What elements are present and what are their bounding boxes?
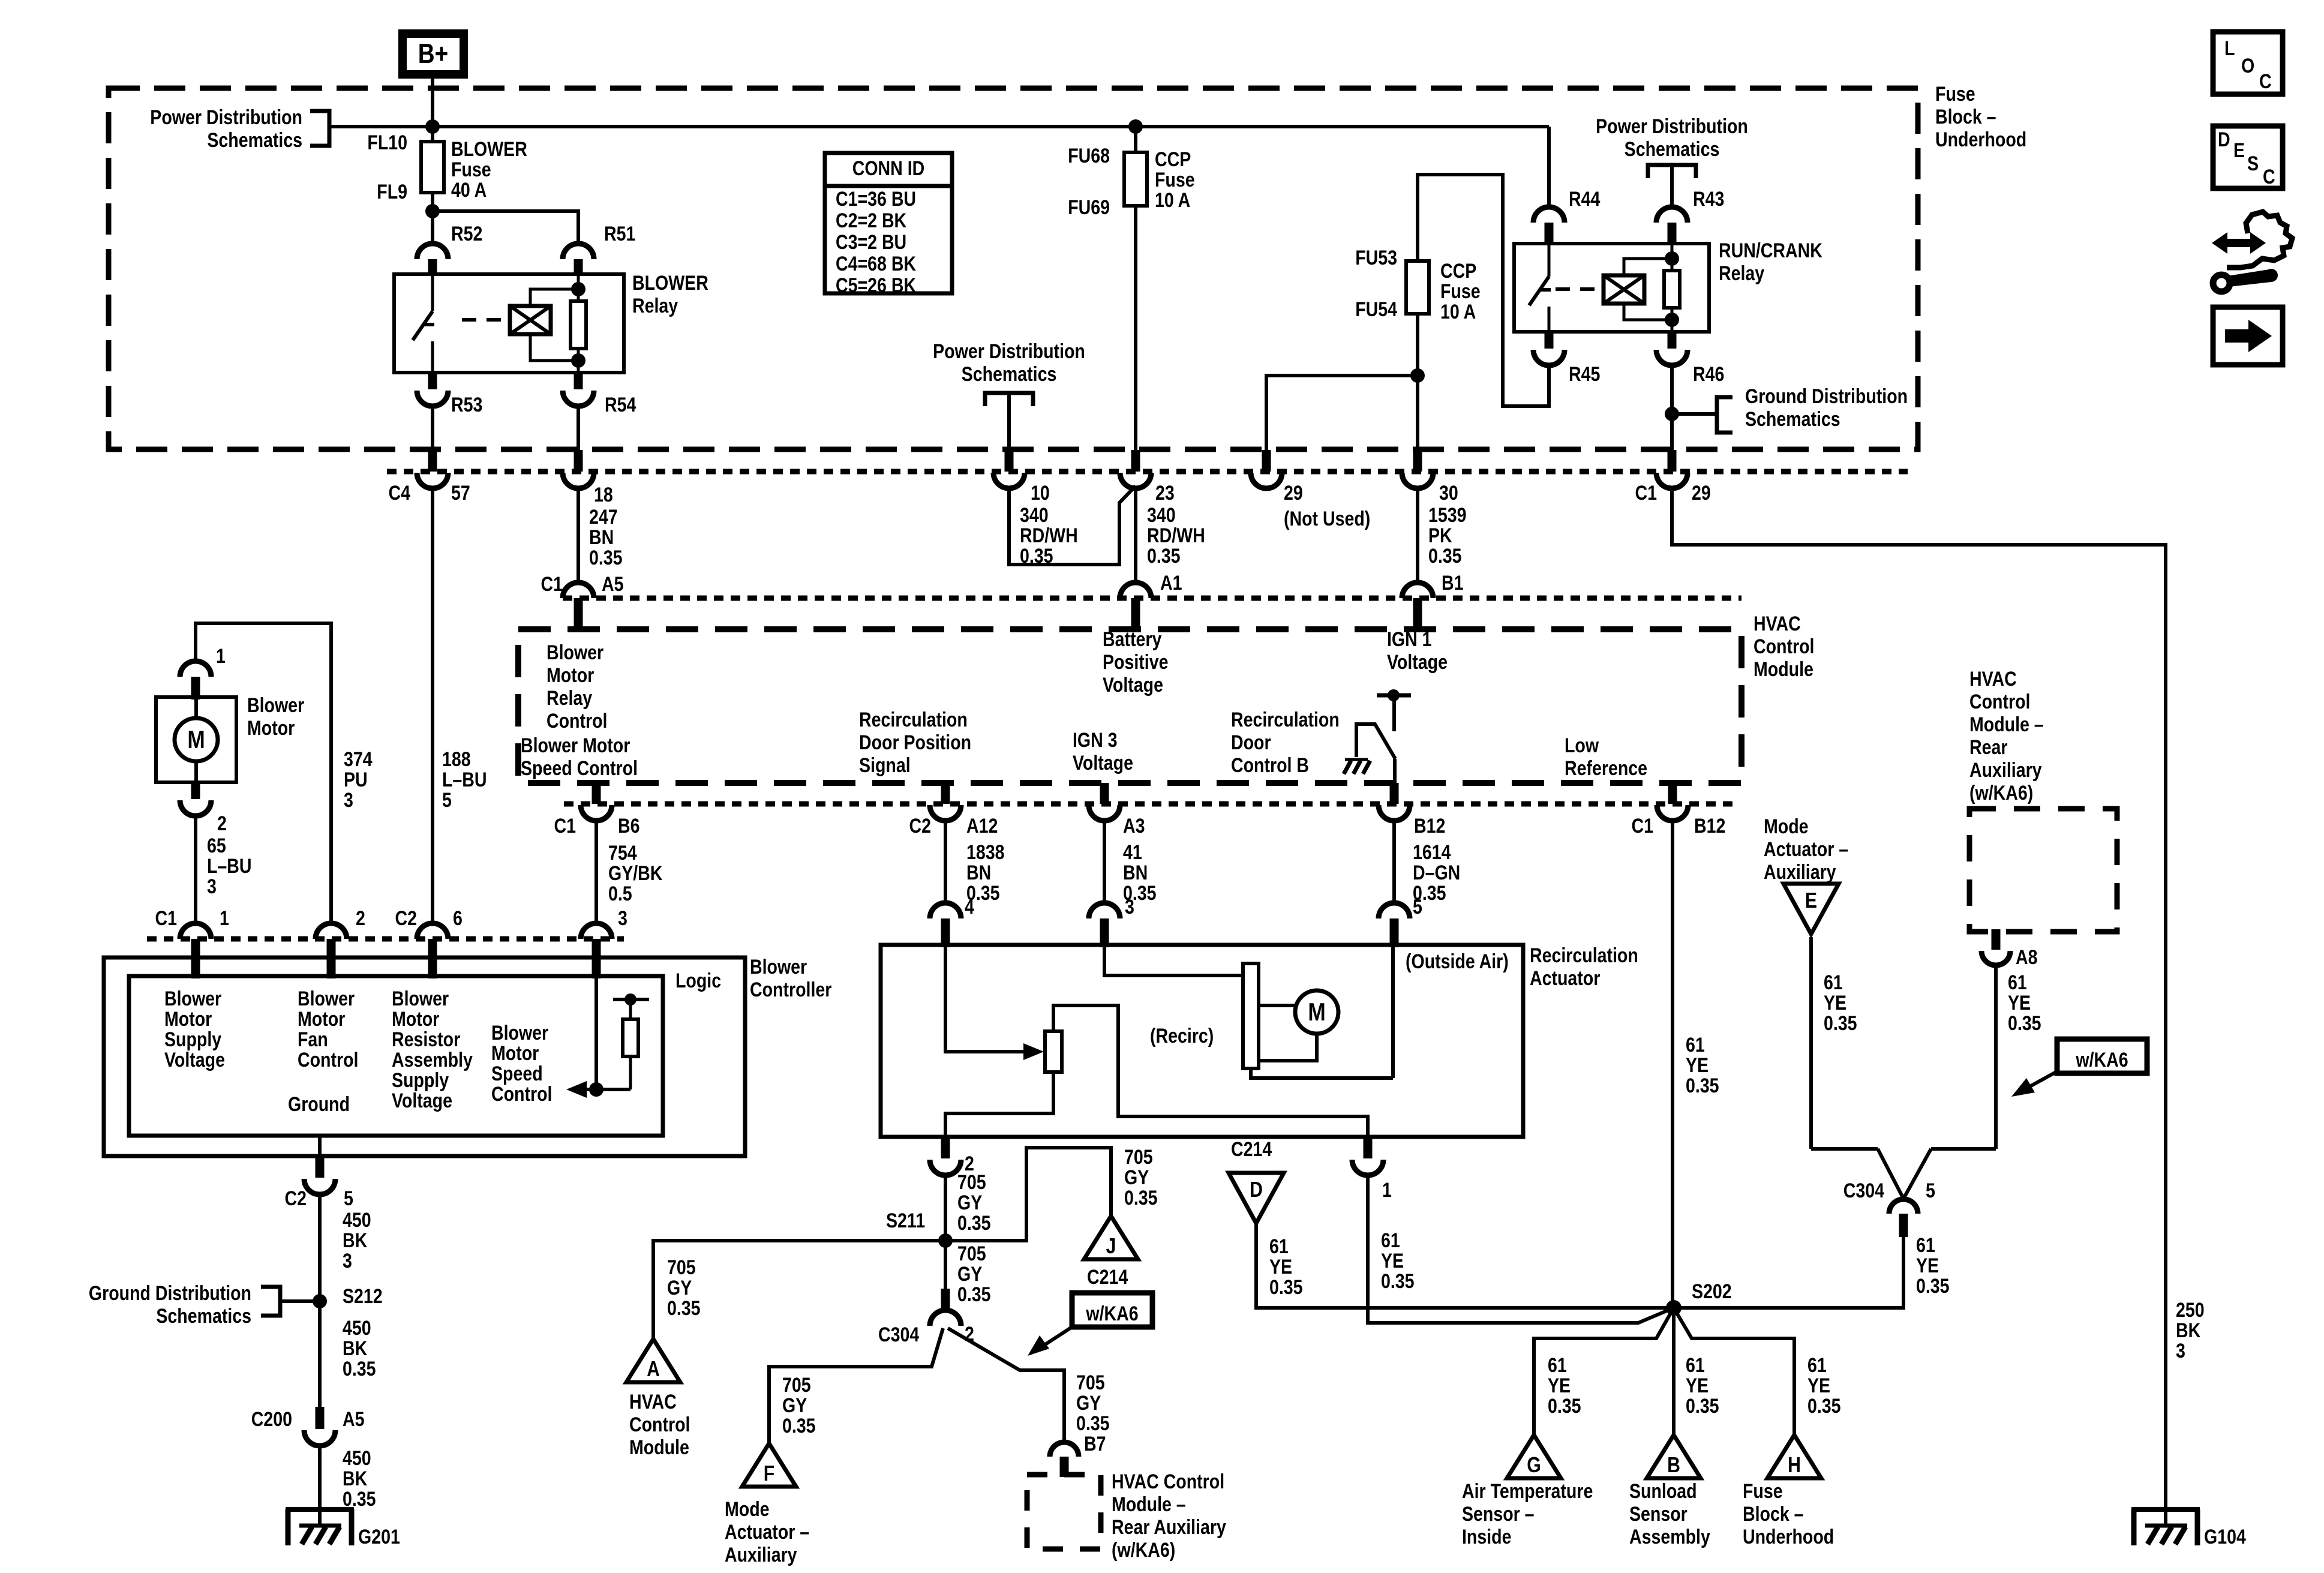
switch blower relay contact	[413, 274, 434, 373]
svg-text:705: 705	[782, 1374, 811, 1397]
svg-text:29: 29	[1692, 482, 1711, 505]
svg-text:Control: Control	[1969, 691, 2030, 713]
label outside air	[1406, 950, 1509, 973]
wire pin2 to C304-2	[944, 1175, 947, 1289]
svg-text:10 A: 10 A	[1440, 301, 1476, 323]
label wire 61 YE low reference	[1686, 1034, 1719, 1097]
svg-text:BK: BK	[343, 1229, 368, 1252]
node bus to FU68	[1128, 119, 1143, 134]
svg-text:705: 705	[1076, 1371, 1105, 1394]
svg-text:0.35: 0.35	[957, 1283, 991, 1306]
splice S212	[313, 1294, 327, 1308]
connector row HVAC module outputs dotted line	[564, 801, 1740, 807]
svg-text:23: 23	[1155, 482, 1175, 505]
svg-text:450: 450	[343, 1317, 371, 1340]
label battery positive voltage	[1103, 628, 1168, 697]
fuse FU68/FU69 CCP 10A	[1124, 152, 1147, 206]
svg-text:Fuse: Fuse	[1155, 169, 1195, 191]
label wire 1539 PK	[1428, 504, 1467, 568]
svg-text:Fuse: Fuse	[451, 158, 491, 181]
svg-text:C2: C2	[285, 1187, 307, 1210]
splice S202	[1666, 1300, 1682, 1316]
wire E leg horizontal	[1811, 1147, 1878, 1151]
label wire 450 BK 0.35 lower	[343, 1447, 376, 1511]
connector C4 pin 57	[417, 450, 448, 488]
svg-text:(Outside Air): (Outside Air)	[1406, 950, 1509, 973]
svg-text:250: 250	[2176, 1299, 2205, 1322]
svg-text:S202: S202	[1692, 1280, 1732, 1303]
svg-text:R44: R44	[1569, 188, 1601, 211]
label blower controller	[750, 956, 831, 1001]
svg-text:O: O	[2241, 55, 2254, 77]
wire bus to FU68	[1134, 127, 1137, 152]
label C214 J	[1087, 1266, 1128, 1289]
svg-text:RUN/CRANK: RUN/CRANK	[1719, 239, 1822, 262]
svg-text:F: F	[764, 1462, 774, 1486]
svg-text:61: 61	[1807, 1354, 1827, 1377]
connector C304 pin 2	[930, 1289, 961, 1326]
svg-text:G: G	[1527, 1454, 1541, 1478]
svg-text:Module –: Module –	[1969, 713, 2044, 736]
connector actuator pin 4	[930, 903, 961, 947]
svg-text:Controller: Controller	[750, 978, 831, 1001]
svg-text:FU53: FU53	[1355, 247, 1397, 269]
svg-text:Voltage: Voltage	[1103, 674, 1163, 697]
label HVAC control module A	[629, 1391, 690, 1459]
wire 57 to blower controller pin 6	[431, 488, 434, 923]
wire B6 to controller	[594, 821, 598, 923]
svg-text:Air Temperature: Air Temperature	[1462, 1480, 1593, 1503]
svg-text:Supply: Supply	[392, 1069, 449, 1092]
svg-text:Schematics: Schematics	[156, 1305, 251, 1328]
svg-text:Positive: Positive	[1103, 651, 1168, 674]
svg-text:Recirculation: Recirculation	[859, 709, 968, 731]
svg-text:3: 3	[618, 907, 627, 930]
svg-text:YE: YE	[1269, 1256, 1292, 1278]
svg-text:Fuse: Fuse	[1743, 1480, 1783, 1503]
svg-text:450: 450	[343, 1447, 371, 1470]
svg-text:Resistor: Resistor	[392, 1028, 460, 1051]
svg-text:0.35: 0.35	[957, 1212, 991, 1235]
connector C2 pin 5 ground	[304, 1156, 335, 1194]
svg-text:40 A: 40 A	[451, 179, 487, 202]
connector R44	[1533, 207, 1565, 245]
svg-text:HVAC Control: HVAC Control	[1112, 1470, 1224, 1493]
svg-text:Recirculation: Recirculation	[1231, 709, 1340, 731]
svg-text:G201: G201	[358, 1526, 400, 1548]
svg-text:Ground Distribution: Ground Distribution	[1745, 385, 1908, 408]
svg-text:C4: C4	[389, 482, 411, 505]
svg-text:1539: 1539	[1428, 504, 1467, 527]
label mode actuator auxiliary E	[1764, 815, 1848, 884]
svg-text:C214: C214	[1231, 1138, 1272, 1161]
label wire 61 YE from pin 1	[1381, 1229, 1415, 1293]
label S211	[886, 1209, 925, 1232]
svg-text:Module: Module	[629, 1436, 689, 1459]
svg-text:D: D	[1250, 1178, 1263, 1202]
svg-text:YE: YE	[1824, 992, 1846, 1014]
svg-text:Blower: Blower	[164, 987, 221, 1010]
wire ground internal	[318, 1136, 322, 1156]
svg-text:Power Distribution: Power Distribution	[1596, 115, 1748, 138]
svg-text:C1: C1	[155, 907, 177, 930]
relay RUN/CRANK Relay box	[1514, 244, 1709, 332]
label recirculation door position signal	[859, 709, 971, 777]
svg-text:Blower: Blower	[298, 987, 355, 1010]
svg-text:L–BU: L–BU	[207, 855, 252, 878]
label wire 340 RD/WH left	[1020, 504, 1078, 568]
label IGN 1 voltage	[1387, 628, 1448, 674]
svg-text:HVAC: HVAC	[1753, 613, 1801, 635]
svg-text:Underhood: Underhood	[1743, 1526, 1834, 1548]
label ground	[288, 1093, 350, 1116]
svg-text:61: 61	[2008, 971, 2027, 994]
label wire 188 L-BU	[442, 748, 487, 812]
connector R45	[1533, 332, 1565, 365]
svg-text:Relay: Relay	[547, 687, 593, 710]
svg-text:0.35: 0.35	[1686, 1074, 1719, 1097]
svg-text:0.35: 0.35	[2008, 1012, 2041, 1035]
svg-text:CCP: CCP	[1155, 148, 1191, 171]
svg-text:30: 30	[1439, 482, 1458, 505]
label HVAC rear auxiliary left	[1112, 1470, 1226, 1562]
svg-text:Schematics: Schematics	[207, 129, 302, 152]
svg-text:5: 5	[344, 1187, 353, 1210]
icon service procedure wrench arrow	[2212, 212, 2292, 292]
wire R54 to 18	[577, 406, 580, 450]
ground G201	[286, 1509, 400, 1548]
svg-text:C: C	[2263, 166, 2275, 188]
label power distribution schematics middle	[933, 340, 1085, 386]
svg-text:0.35: 0.35	[1269, 1276, 1303, 1299]
svg-text:Actuator –: Actuator –	[725, 1521, 809, 1544]
label wire 1614 D-GN	[1413, 841, 1460, 905]
svg-text:247: 247	[589, 506, 618, 529]
svg-text:GY: GY	[957, 1263, 982, 1286]
label low reference	[1565, 734, 1647, 780]
wire C304-5 right leg	[1903, 1149, 1931, 1199]
switch run/crank relay contact	[1529, 244, 1551, 332]
connector pin 23	[1120, 450, 1151, 488]
svg-text:B6: B6	[618, 815, 639, 837]
label RUN/CRANK Relay	[1719, 239, 1822, 285]
pin B7 label	[1084, 1433, 1106, 1455]
connector R51	[563, 244, 594, 275]
triangle F mode actuator	[742, 1443, 796, 1487]
wire C1-29 to G104	[1672, 488, 2166, 1509]
svg-text:Mode: Mode	[725, 1498, 770, 1521]
wire pin 3 to drive bar	[1104, 945, 1243, 975]
svg-text:Motor: Motor	[491, 1042, 539, 1065]
svg-text:A12: A12	[966, 815, 998, 837]
blower controller logic box	[129, 976, 663, 1136]
svg-text:L: L	[2224, 37, 2235, 60]
svg-text:C1: C1	[554, 815, 576, 837]
svg-text:GY/BK: GY/BK	[608, 862, 663, 885]
connector C1 pin 29	[1656, 450, 1688, 488]
svg-text:Door: Door	[1231, 731, 1271, 754]
label IGN 3 voltage	[1073, 729, 1133, 775]
wire C304-5 left leg	[1878, 1149, 1903, 1199]
label not used	[1284, 508, 1370, 530]
svg-text:Schematics: Schematics	[1625, 138, 1720, 161]
connector A8	[1981, 929, 2010, 965]
svg-text:3: 3	[344, 789, 353, 812]
svg-text:IGN 3: IGN 3	[1073, 729, 1118, 752]
svg-text:B1: B1	[1442, 572, 1463, 595]
svg-text:C1: C1	[1635, 482, 1657, 505]
svg-text:FU54: FU54	[1355, 298, 1397, 321]
wire S211 to J	[945, 1148, 1111, 1241]
wire E down	[1809, 937, 1813, 1149]
fuse FL10/FL9 BLOWER 40A	[421, 142, 444, 193]
svg-text:Control: Control	[298, 1049, 358, 1071]
svg-text:FL10: FL10	[367, 131, 407, 154]
connector pin A1	[1120, 583, 1151, 629]
label wire 1838 BN	[966, 841, 1005, 905]
svg-text:5: 5	[1413, 896, 1422, 918]
fuse FU53/FU54 CCP 10A	[1406, 261, 1429, 314]
icon LOC	[2213, 32, 2283, 94]
svg-text:374: 374	[344, 748, 373, 771]
svg-text:C304: C304	[878, 1323, 920, 1346]
svg-text:Motor: Motor	[298, 1008, 345, 1031]
wire motor to controller pin 1	[194, 816, 197, 923]
svg-text:0.35: 0.35	[589, 547, 623, 569]
wire C304-2 to F	[769, 1328, 943, 1443]
svg-text:Auxiliary: Auxiliary	[725, 1544, 797, 1566]
svg-text:Sensor: Sensor	[1629, 1503, 1688, 1526]
svg-text:Low: Low	[1565, 734, 1599, 757]
connector pin 10	[993, 450, 1025, 488]
svg-text:R53: R53	[451, 394, 482, 416]
svg-text:61: 61	[1824, 971, 1843, 994]
wire pin1 to S202	[1368, 1175, 1674, 1323]
svg-text:Rear Auxiliary: Rear Auxiliary	[1112, 1516, 1226, 1539]
svg-text:0.35: 0.35	[343, 1358, 376, 1380]
svg-text:A1: A1	[1160, 572, 1182, 595]
label recirculation door control B	[1231, 709, 1340, 777]
svg-text:C1=36 BU: C1=36 BU	[836, 188, 916, 211]
connector actuator pin 5	[1379, 903, 1410, 947]
label HVAC control module	[1753, 613, 1814, 681]
svg-text:Relay: Relay	[632, 295, 678, 317]
svg-text:D–GN: D–GN	[1413, 861, 1460, 884]
svg-text:1614: 1614	[1413, 841, 1451, 864]
motor M recirculation	[1295, 990, 1338, 1034]
connector row fuse block outputs dotted line	[387, 469, 1908, 475]
svg-text:0.35: 0.35	[1381, 1270, 1415, 1293]
bracket power distribution left	[310, 111, 329, 146]
svg-text:Fan: Fan	[298, 1028, 328, 1051]
svg-text:Motor: Motor	[164, 1008, 212, 1031]
svg-text:0.35: 0.35	[1076, 1412, 1110, 1435]
wire low reference to S202	[1671, 821, 1674, 1308]
wire pot bottom to pin 2	[945, 1072, 1053, 1137]
svg-text:BK: BK	[343, 1467, 368, 1490]
svg-text:188: 188	[442, 748, 471, 771]
svg-text:BLOWER: BLOWER	[451, 138, 527, 161]
svg-text:3: 3	[343, 1250, 352, 1272]
svg-text:705: 705	[957, 1242, 986, 1265]
svg-text:RD/WH: RD/WH	[1147, 524, 1205, 547]
svg-text:Module: Module	[1753, 658, 1813, 681]
svg-text:Motor: Motor	[392, 1008, 439, 1031]
connector pin 30	[1402, 450, 1433, 488]
HVAC rear auxiliary dashed box left	[1027, 1475, 1101, 1549]
bracket ground distribution right	[1717, 397, 1733, 433]
coil blower relay	[462, 274, 586, 373]
svg-text:S211: S211	[886, 1209, 925, 1232]
wire PDS to R43	[1670, 165, 1674, 207]
node B+ bus junction	[425, 119, 440, 134]
connector R43	[1656, 207, 1688, 245]
label wire 705 GY to A	[667, 1256, 701, 1320]
svg-text:Signal: Signal	[859, 754, 911, 777]
label wire 374 PU	[344, 748, 373, 812]
connector pin A3	[1089, 783, 1120, 821]
svg-text:A: A	[647, 1358, 660, 1382]
connector C1 pin B12 low reference	[1657, 783, 1688, 821]
svg-text:BK: BK	[2176, 1319, 2201, 1342]
label wire 247 BN	[589, 506, 623, 569]
wire 18 to A5	[577, 488, 580, 583]
label wire 61 YE to C304-5	[1916, 1234, 1950, 1298]
label fuse block underhood H	[1743, 1480, 1834, 1548]
svg-text:Supply: Supply	[164, 1028, 222, 1051]
svg-text:YE: YE	[1686, 1054, 1709, 1077]
svg-text:A5: A5	[343, 1408, 364, 1431]
svg-text:R45: R45	[1569, 363, 1600, 386]
label recirc	[1150, 1025, 1214, 1047]
wire B12 to actuator pin 5	[1392, 821, 1396, 903]
svg-text:YE: YE	[1381, 1250, 1404, 1272]
HVAC control module dashed box	[518, 629, 1742, 783]
label air temperature sensor	[1462, 1480, 1593, 1548]
svg-text:Speed: Speed	[491, 1062, 543, 1085]
svg-text:GY: GY	[1076, 1392, 1101, 1415]
svg-text:A3: A3	[1123, 815, 1145, 837]
svg-text:H: H	[1788, 1454, 1801, 1478]
wire bracket to S212	[280, 1299, 313, 1303]
svg-text:0.35: 0.35	[667, 1297, 701, 1320]
svg-text:61: 61	[1269, 1235, 1289, 1258]
svg-text:A8: A8	[2016, 946, 2037, 969]
node FU54 junction	[1410, 368, 1425, 383]
svg-text:Relay: Relay	[1719, 262, 1765, 285]
label wire 41 BN	[1123, 841, 1157, 905]
relay BLOWER Relay box	[394, 274, 624, 373]
wire branch to R51	[433, 211, 578, 244]
svg-text:3: 3	[2176, 1340, 2185, 1362]
w/KA6 flag box left	[1028, 1293, 1152, 1356]
svg-text:0.35: 0.35	[1548, 1395, 1581, 1418]
svg-text:Mode: Mode	[1764, 815, 1809, 838]
svg-text:Blower: Blower	[547, 641, 603, 664]
triangle H fuse block underhood	[1767, 1435, 1821, 1478]
svg-text:Actuator: Actuator	[1530, 967, 1600, 990]
svg-text:B7: B7	[1084, 1433, 1106, 1455]
label wire 754 GY/BK	[608, 842, 663, 905]
svg-text:B+: B+	[418, 38, 448, 69]
node R46 ground branch	[1665, 407, 1679, 421]
label power distribution schematics right	[1596, 115, 1748, 161]
wire A12 to actuator pin 4	[944, 821, 947, 903]
svg-text:(Recirc): (Recirc)	[1150, 1025, 1214, 1047]
svg-text:Fuse: Fuse	[1440, 280, 1481, 303]
svg-text:R54: R54	[605, 394, 636, 416]
svg-text:C2: C2	[909, 815, 931, 837]
svg-text:1: 1	[220, 907, 229, 930]
svg-text:Door Position: Door Position	[859, 731, 971, 754]
svg-text:BLOWER: BLOWER	[632, 272, 708, 295]
connector blower motor pin 2	[180, 782, 211, 816]
label wire 705 GY to J	[1124, 1146, 1158, 1209]
svg-text:0.35: 0.35	[1428, 545, 1462, 568]
connector row HVAC module inputs dotted line	[563, 596, 1742, 601]
label wire 61 YE to B	[1686, 1354, 1719, 1418]
label C214 D	[1231, 1138, 1272, 1161]
svg-text:C4=68 BK: C4=68 BK	[836, 253, 916, 275]
wire C304-2 to B7	[948, 1328, 1064, 1442]
blower controller outer box	[104, 957, 745, 1156]
svg-text:Rear: Rear	[1969, 736, 2007, 759]
triangle G air temperature sensor	[1507, 1435, 1561, 1478]
svg-text:YE: YE	[1548, 1374, 1571, 1397]
label recirculation actuator	[1530, 944, 1638, 990]
w/KA6 flag box right	[2011, 1039, 2147, 1097]
svg-text:J: J	[1106, 1235, 1116, 1259]
svg-text:S212: S212	[343, 1285, 383, 1308]
svg-text:1: 1	[216, 645, 226, 668]
svg-text:Blower Motor: Blower Motor	[521, 734, 630, 757]
connector R46	[1656, 332, 1688, 365]
wire to R52	[431, 211, 434, 244]
svg-text:Motor: Motor	[547, 664, 594, 687]
svg-text:Block –: Block –	[1743, 1503, 1804, 1526]
label mode actuator auxiliary F	[725, 1498, 809, 1566]
label HVAC rear auxiliary right	[1969, 668, 2044, 804]
svg-text:C2: C2	[395, 907, 417, 930]
svg-text:705: 705	[1124, 1146, 1153, 1169]
HVAC rear auxiliary dashed box right	[1969, 809, 2117, 932]
svg-text:R46: R46	[1693, 363, 1724, 386]
svg-text:0.35: 0.35	[1147, 545, 1181, 568]
label wire 65 L-BU	[207, 834, 252, 898]
label sunload sensor assembly	[1629, 1480, 1710, 1548]
svg-text:Blower: Blower	[247, 694, 304, 717]
wire FU69 to pin 23	[1134, 206, 1137, 450]
svg-text:Assembly: Assembly	[1629, 1526, 1710, 1548]
svg-text:0.35: 0.35	[1916, 1275, 1950, 1298]
svg-text:Block –: Block –	[1935, 106, 1996, 128]
label wire 450 BK 0.35 upper	[343, 1317, 376, 1380]
svg-text:Control: Control	[491, 1083, 552, 1106]
svg-text:A5: A5	[602, 573, 623, 596]
svg-text:Sensor –: Sensor –	[1462, 1503, 1535, 1526]
svg-text:Speed Control: Speed Control	[521, 757, 638, 780]
connector pin 3 controller	[581, 923, 612, 978]
wire S202 to G	[1534, 1308, 1674, 1435]
wire FU53 to R45	[1418, 175, 1549, 406]
svg-text:Module –: Module –	[1112, 1493, 1186, 1516]
wire to ground distribution bracket	[1672, 412, 1717, 416]
label fuse block underhood	[1935, 83, 2026, 151]
wire blower motor feed loop	[196, 623, 331, 923]
blower motor box	[156, 697, 236, 782]
node below blower fuse	[425, 204, 440, 218]
connector actuator pin 2 out	[930, 1137, 961, 1175]
